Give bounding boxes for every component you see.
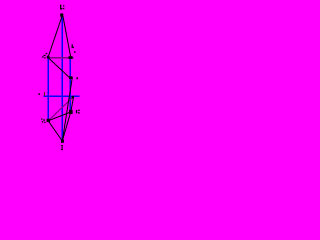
steep line P2-B [62, 78, 72, 142]
label S2 "L:" [60, 5, 64, 10]
vertex dots [47, 13, 74, 142]
label P dot [76, 77, 78, 79]
plan edge L-B [48, 121, 62, 141]
plan edge B-R [62, 112, 70, 141]
axis dot [38, 93, 40, 95]
label A2 [42, 53, 47, 59]
construction X-R [71, 98, 74, 112]
purple plan construction line [48, 97, 73, 121]
label B (below) [61, 145, 63, 150]
edge S2-C2 [63, 15, 71, 58]
maroon axis tick [43, 92, 45, 96]
label L (plan) [41, 118, 45, 123]
blue axis y=96 [44, 95, 80, 97]
blue projector x=70 (C) [69, 58, 71, 114]
purple base line elevation [48, 57, 74, 59]
label R [76, 110, 80, 114]
plan edge L-R [48, 112, 70, 121]
label near C2 [72, 44, 76, 52]
edge S2-A2 [48, 15, 63, 58]
blue projector x=48 (A) [47, 57, 49, 121]
blue projector x=62 (S) [61, 15, 63, 141]
edge A2-P2 [48, 58, 71, 80]
